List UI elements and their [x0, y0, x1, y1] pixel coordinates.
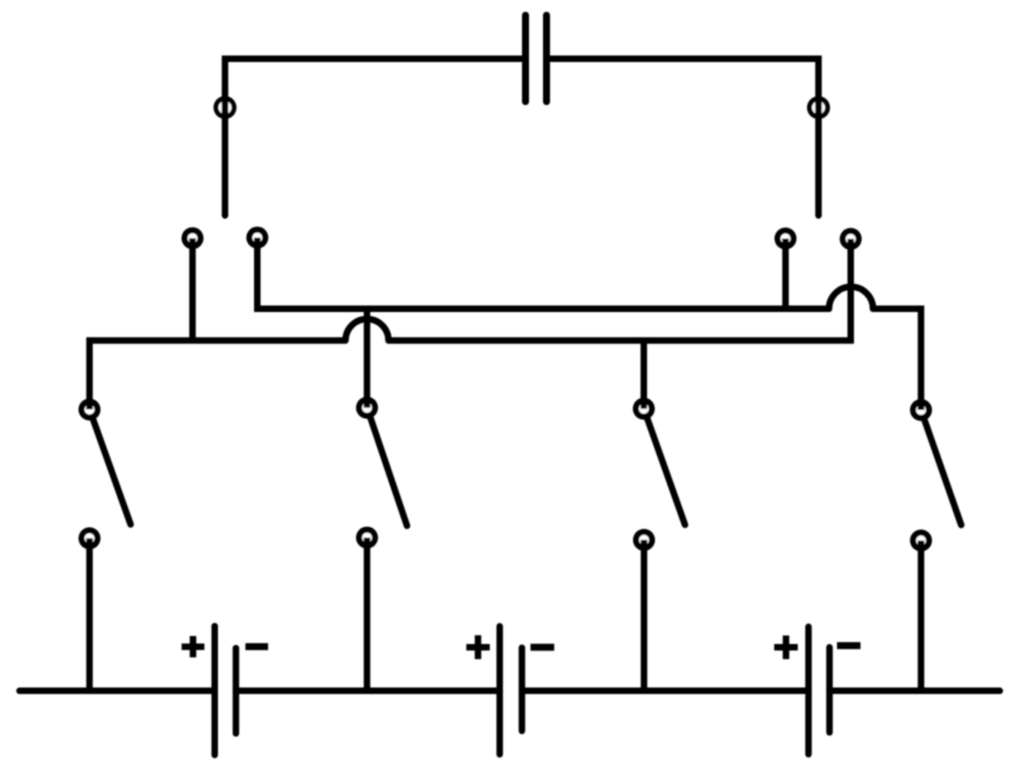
node: switch S1 bottom terminal — [79, 527, 101, 549]
wire: upper bus right part (hop to corner down to S4 top) — [873, 309, 922, 410]
switch S2 arm (open) — [370, 418, 407, 526]
wire: bottom rail segment 4 (B3 to right end) — [830, 688, 1000, 695]
wire: branch from upper bus down to S2 top — [364, 309, 371, 408]
wire: S2 bottom terminal down to bottom rail — [364, 538, 371, 691]
battery B3 positive plate (long) — [805, 627, 812, 754]
node: switch S3 top terminal — [633, 398, 655, 420]
switch S3 arm (open) — [647, 419, 685, 525]
label: battery B3 minus sign — [837, 642, 861, 649]
battery B2 positive plate (long) — [496, 626, 503, 754]
wire: S1 bottom terminal down to bottom rail — [86, 538, 93, 691]
wire hop: arc over crossing at x=850.7 on upper bus — [829, 287, 873, 309]
wire: bottom rail segment 2 (B1 to B2) — [236, 688, 500, 695]
wire hop: arc over crossing at x=367 on lower bus — [346, 319, 389, 341]
node T1: open terminal upper-left — [182, 227, 204, 249]
wire: upper bus left part (T2 down, along y=308 to hop) — [257, 238, 829, 309]
switch S4 arm (open) — [925, 420, 962, 525]
node: capacitor right lead terminal ring — [807, 96, 830, 119]
node: switch S1 top terminal — [79, 399, 101, 421]
wire: bottom rail segment 1 (left end to battery B1) — [20, 688, 215, 695]
node T2: open terminal left of pair — [246, 227, 268, 249]
wire: capacitor left lead (top-left corner down to open end) — [225, 59, 523, 216]
wire: stub from T1 down to lower bus — [189, 238, 196, 340]
label: battery B2 minus sign — [531, 644, 555, 651]
node: switch S4 bottom terminal — [910, 530, 932, 552]
wire: stub from T3 up from upper bus — [782, 239, 789, 309]
wire: S4 bottom terminal down to bottom rail — [918, 541, 925, 691]
battery B1 positive plate (long) — [211, 626, 218, 755]
capacitor C1 left plate — [522, 15, 529, 101]
label: battery B3 plus sign — [774, 636, 798, 660]
capacitor C1 right plate — [543, 15, 550, 101]
node: switch S2 top terminal — [356, 397, 378, 419]
label: battery B1 plus sign — [182, 636, 205, 657]
battery B3 negative plate (short) — [826, 647, 833, 732]
wire: branch from lower bus down to S3 top — [641, 341, 648, 409]
wire: lower bus left part (S1 top up, along y=338 to hop) — [90, 341, 347, 410]
node: capacitor left lead terminal ring — [214, 96, 237, 119]
node T4: open terminal upper-right pair right — [840, 228, 862, 250]
node: switch S3 bottom terminal — [633, 529, 655, 551]
switch S1 arm (open) — [93, 419, 131, 524]
wire: capacitor right lead (top-right corner down to open end) — [548, 59, 819, 216]
label: battery B1 minus sign — [245, 643, 268, 650]
battery B1 negative plate (short) — [233, 648, 240, 733]
node: switch S2 bottom terminal — [356, 527, 378, 549]
wire: S3 bottom terminal down to bottom rail — [641, 540, 648, 691]
node T3: open terminal upper-right pair left — [775, 228, 797, 250]
wire: bottom rail segment 3 (B2 to B3) — [522, 688, 809, 695]
label: battery B2 plus sign — [466, 635, 490, 659]
wire: lower bus right part (hop to corner up to T4) — [388, 239, 851, 341]
node: switch S4 top terminal — [910, 399, 932, 421]
battery B2 negative plate (short) — [519, 648, 526, 731]
